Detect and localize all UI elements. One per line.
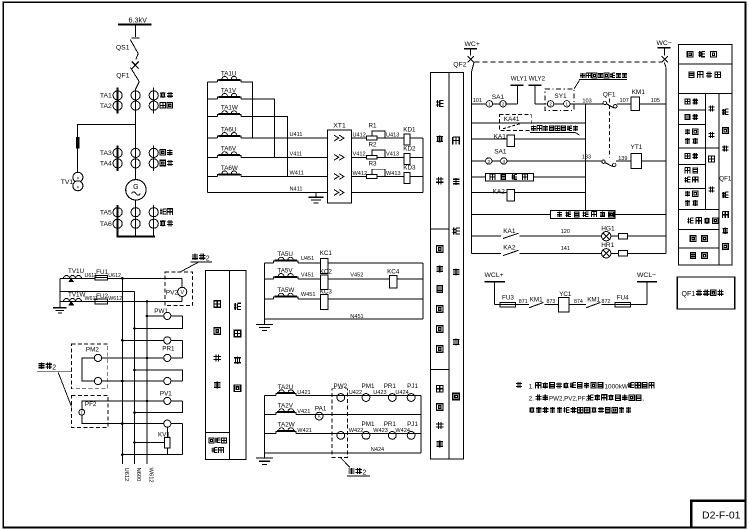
wire	[615, 214, 666, 216]
meter PW1 lower coil	[121, 337, 182, 358]
terminal block XT1	[328, 123, 352, 203]
svg-text:TA2W: TA2W	[278, 422, 295, 429]
wire	[108, 301, 183, 303]
svg-text:6.3kV: 6.3kV	[129, 15, 148, 24]
svg-text:141: 141	[561, 246, 570, 252]
branch wire to TV1	[78, 125, 136, 138]
svg-text:PR1: PR1	[162, 345, 175, 352]
svg-text:KA2: KA2	[493, 189, 506, 196]
svg-text:1: 1	[566, 102, 569, 107]
svg-text:FU4: FU4	[617, 294, 629, 301]
svg-text:PW2,PV2,PF2: PW2,PV2,PF2	[549, 396, 589, 403]
wire row9	[472, 252, 501, 254]
label 小母线	[687, 51, 693, 57]
svg-text:PV2: PV2	[166, 290, 179, 297]
label 见注2	[347, 468, 370, 477]
svg-text:872: 872	[602, 299, 611, 305]
svg-text:TA5: TA5	[100, 210, 112, 217]
label 合闸	[708, 105, 714, 111]
CT secondary TA6W	[218, 165, 242, 177]
QF1 aux linkage dashed	[608, 99, 610, 158]
wire	[352, 156, 367, 158]
sync bus WLY1	[511, 75, 528, 103]
bottom tie bar	[117, 236, 156, 238]
wire main feeder	[136, 82, 140, 180]
svg-text:PR1: PR1	[384, 383, 397, 390]
svg-text:V452: V452	[350, 273, 363, 279]
label 手动	[685, 153, 690, 158]
fuse FU3	[500, 294, 515, 307]
wire	[495, 304, 501, 306]
sync bus WLY2	[529, 75, 546, 103]
wire	[377, 156, 404, 158]
wire	[410, 137, 423, 139]
relay KC3	[320, 288, 333, 309]
svg-text:PM1: PM1	[362, 421, 375, 428]
wire U421 row	[296, 394, 421, 396]
wire 874	[569, 304, 586, 306]
wire	[136, 54, 138, 60]
svg-text:TA3: TA3	[100, 150, 112, 157]
wire W411	[241, 176, 327, 178]
synchronizer contact SY1	[545, 89, 574, 111]
meter PR1 lower coil	[102, 369, 183, 385]
right rail	[422, 263, 424, 319]
svg-text:D2-F-01: D2-F-01	[702, 509, 741, 521]
svg-text:WLY1: WLY1	[511, 75, 528, 82]
QF2 linkage dashed	[475, 61, 662, 63]
wire	[265, 394, 277, 396]
label 见同期控制图	[579, 73, 627, 80]
wire 873	[545, 304, 559, 306]
CT secondary TA6V	[218, 146, 242, 158]
label 操作回路	[722, 192, 728, 198]
wire	[207, 81, 217, 83]
svg-text:W612: W612	[108, 296, 122, 302]
label box 电压回路	[205, 271, 246, 460]
svg-text:QF1: QF1	[603, 92, 616, 99]
wire	[352, 176, 367, 178]
wire 101	[472, 103, 487, 105]
wire	[515, 192, 586, 194]
svg-text:2.: 2.	[529, 396, 535, 403]
wire row W	[60, 301, 95, 303]
function table	[678, 44, 732, 265]
svg-text:2: 2	[502, 102, 505, 107]
svg-text:N600: N600	[135, 468, 141, 482]
svg-text:U422: U422	[349, 390, 362, 396]
wire V411	[241, 156, 327, 158]
svg-text:KC2: KC2	[320, 269, 333, 276]
note line 3	[529, 407, 631, 413]
wire KV1-N	[135, 442, 165, 444]
svg-text:PR1: PR1	[384, 421, 397, 428]
wire bottom return	[122, 454, 182, 456]
wire N424 row	[265, 452, 421, 454]
svg-text:120: 120	[561, 229, 570, 235]
wire	[264, 298, 273, 300]
svg-text:133: 133	[582, 154, 591, 160]
svg-text:PJ1: PJ1	[407, 421, 418, 428]
svg-text:TA1W: TA1W	[221, 105, 238, 112]
relay coil KA2	[493, 189, 515, 202]
meter PF2 dashed panel	[71, 395, 108, 427]
CT TA3 circles	[100, 148, 158, 157]
wire	[397, 278, 423, 280]
left control rail	[471, 72, 473, 254]
svg-text:V413: V413	[386, 152, 399, 158]
node bus	[585, 104, 587, 211]
wire row4	[472, 160, 486, 162]
relay KD2	[403, 146, 416, 165]
relay KC4	[387, 269, 400, 288]
svg-text:TA2V: TA2V	[278, 403, 294, 410]
ground	[256, 319, 273, 331]
wire row6	[472, 192, 507, 194]
svg-text:PJ1: PJ1	[407, 383, 418, 390]
wire series link W	[241, 116, 287, 176]
box 水机保护	[486, 173, 534, 181]
meter PR1	[102, 345, 183, 361]
wire	[535, 103, 547, 105]
svg-text:TV1: TV1	[61, 179, 74, 186]
svg-text:U421: U421	[297, 390, 310, 396]
label 过流及过负荷	[437, 246, 443, 252]
switch SA1 contact 3-4	[486, 149, 507, 165]
relay KC1	[320, 250, 333, 274]
ammeter PA1	[315, 406, 327, 420]
meter PJ1 (W)	[407, 432, 415, 440]
svg-text:QF1: QF1	[719, 175, 732, 182]
wire 105	[639, 103, 666, 105]
svg-text:W612: W612	[148, 468, 154, 483]
winding TV1W	[64, 292, 86, 305]
green lamp HG1	[601, 225, 615, 241]
wire W421 row	[296, 432, 421, 434]
CT TA2 circles	[100, 101, 158, 110]
svg-text:V451: V451	[301, 272, 314, 278]
TV common rail	[59, 278, 61, 303]
breaker QF2 pole right	[662, 56, 668, 67]
svg-text:KA1: KA1	[503, 228, 516, 235]
right CT column segments	[153, 88, 155, 114]
wire	[410, 156, 423, 158]
svg-text:QF2: QF2	[453, 62, 466, 69]
svg-text:KC1: KC1	[320, 250, 333, 257]
contactor coil KM1	[631, 89, 646, 111]
svg-text:TA4: TA4	[100, 161, 112, 168]
wire N takeoff	[60, 290, 135, 292]
label 红灯	[691, 253, 708, 259]
wire	[265, 432, 277, 434]
wire series link V	[241, 99, 274, 157]
svg-text:W412: W412	[353, 171, 368, 177]
CT secondary TA2W	[276, 422, 296, 434]
svg-text:TA2U: TA2U	[278, 384, 294, 391]
svg-text:3: 3	[488, 159, 491, 164]
relay contact KA2	[503, 245, 519, 256]
box QF1合闸线圈	[677, 277, 735, 309]
svg-text:TA5W: TA5W	[277, 287, 294, 294]
svg-text:TA1U: TA1U	[221, 70, 237, 77]
meter PW2 dashed panel	[332, 383, 348, 458]
svg-text:2: 2	[549, 102, 552, 107]
bus WC-	[657, 40, 672, 56]
wire 872	[602, 304, 616, 306]
svg-text:U411: U411	[290, 132, 303, 138]
svg-text:WCL−: WCL−	[637, 272, 656, 279]
label 电压回路	[234, 303, 241, 310]
meter PM1 (U)	[362, 394, 370, 402]
voltage bus N600	[134, 291, 136, 464]
svg-text:SA1: SA1	[492, 94, 505, 101]
label 跳闸	[709, 156, 715, 162]
circuit breaker QF1	[116, 62, 139, 82]
label 见注2 (PM2/PF2)	[37, 363, 71, 407]
svg-text:HG1: HG1	[601, 225, 615, 232]
resistor R2	[367, 142, 385, 160]
wire 103	[570, 103, 605, 105]
wire	[641, 160, 666, 162]
label 空气开关	[689, 72, 694, 78]
meter PM1 (W)	[362, 432, 370, 440]
svg-text:TA5V: TA5V	[277, 268, 293, 275]
label 见注2 (PV2)	[180, 254, 212, 272]
relay contact KA1	[503, 228, 519, 239]
svg-text:KA1: KA1	[494, 134, 507, 141]
svg-text:V411: V411	[290, 151, 303, 157]
svg-text:1000kW: 1000kW	[605, 383, 629, 390]
svg-text:107: 107	[620, 98, 629, 104]
CT secondary TA5V	[274, 268, 299, 280]
label 见水轮机控制图	[530, 126, 579, 135]
wire series link U	[241, 82, 252, 138]
left rail	[264, 395, 266, 452]
voltmeter PV2	[178, 278, 187, 301]
svg-text:KA2: KA2	[503, 245, 516, 252]
svg-text:W413: W413	[386, 171, 401, 177]
label 保护回路	[687, 218, 693, 224]
breaker aux contact QF1 (close)	[603, 92, 617, 109]
CT secondary TA5U	[274, 251, 299, 263]
relay KD3	[403, 165, 416, 184]
meter PR1 (U)	[388, 394, 396, 402]
svg-text:U412: U412	[353, 133, 366, 139]
wire	[328, 298, 423, 300]
svg-text:103: 103	[582, 99, 591, 105]
fuse TV1 primary	[76, 137, 79, 148]
svg-text:TV1U: TV1U	[68, 268, 85, 275]
svg-text:KM1: KM1	[587, 296, 600, 303]
resistor	[618, 251, 627, 256]
wire	[77, 148, 79, 172]
wire row8	[472, 235, 501, 237]
contact KM1 (b)	[586, 296, 601, 307]
wire 871	[516, 304, 529, 306]
voltmeter PV2 dashed box	[165, 272, 193, 306]
winding TV1U	[64, 268, 85, 282]
svg-text:U612: U612	[108, 273, 121, 279]
svg-text:WCL+: WCL+	[485, 272, 504, 279]
label 纵差动	[436, 100, 443, 107]
wire	[628, 235, 666, 237]
svg-text:PA1: PA1	[315, 406, 327, 413]
svg-text:TA1: TA1	[100, 93, 112, 100]
svg-text:1: 1	[488, 102, 491, 107]
svg-text:W422: W422	[349, 428, 364, 434]
generator G	[126, 180, 146, 200]
svg-text:QS1: QS1	[116, 45, 130, 52]
label 过流	[160, 150, 165, 155]
svg-text:TA1V: TA1V	[221, 87, 237, 94]
wire	[377, 176, 404, 178]
svg-text:XT1: XT1	[333, 123, 346, 130]
note leader 见注2	[340, 458, 350, 468]
svg-text:FU2: FU2	[96, 293, 108, 300]
svg-text:KC4: KC4	[387, 269, 400, 276]
closing coil YC1	[559, 291, 572, 312]
svg-text:KD3: KD3	[403, 165, 416, 172]
svg-text:W421: W421	[297, 428, 312, 434]
wire	[628, 252, 666, 254]
svg-text:R3: R3	[369, 161, 378, 168]
wire N451	[264, 318, 423, 320]
bus WC+	[464, 41, 480, 56]
svg-text:QF1: QF1	[682, 291, 696, 298]
bus 6.3kV	[118, 23, 152, 25]
wire 141	[520, 252, 602, 254]
svg-text:4: 4	[503, 159, 506, 164]
wire	[135, 200, 137, 237]
voltage bus W612	[146, 302, 148, 465]
label 水机保护	[685, 168, 698, 183]
right control rail	[665, 67, 667, 253]
svg-text:A: A	[318, 414, 321, 419]
svg-text:KM1: KM1	[530, 296, 543, 303]
svg-text:HR1: HR1	[601, 242, 614, 249]
resistor R1	[367, 122, 385, 140]
label 交流电流回路	[453, 137, 460, 144]
bus WCL+	[485, 272, 505, 304]
breaker QF2 pole left	[453, 56, 474, 71]
svg-text:N411: N411	[290, 187, 303, 193]
fuse FU1	[95, 269, 108, 280]
wire	[328, 262, 423, 264]
svg-text:W451: W451	[301, 292, 316, 298]
relay coil KA1	[494, 134, 515, 147]
wire	[631, 304, 647, 306]
annotation leader	[574, 80, 580, 89]
svg-text:U451: U451	[301, 256, 314, 262]
wire 107	[617, 103, 631, 105]
svg-text:TA5U: TA5U	[277, 251, 293, 258]
wire	[207, 156, 217, 158]
svg-text:,: ,	[642, 396, 644, 403]
CT secondary TA1V	[218, 87, 242, 99]
svg-text:WLY2: WLY2	[529, 75, 546, 82]
svg-text:KV1: KV1	[158, 431, 170, 438]
label 测量表计	[214, 301, 220, 307]
wire	[377, 137, 404, 139]
ladder left rail wire	[206, 82, 208, 193]
svg-text:KC3: KC3	[320, 288, 333, 295]
voltage bus U612	[121, 278, 123, 464]
svg-text:PM2: PM2	[86, 346, 99, 353]
note line 2	[529, 395, 645, 403]
wire V452	[328, 278, 390, 280]
breaker aux contact QF1 (trip)	[602, 160, 616, 167]
wire	[352, 192, 424, 194]
wire 139	[616, 160, 631, 162]
CT TA4 circles	[100, 159, 158, 168]
svg-text:PW1: PW1	[154, 308, 168, 315]
disconnector QS1	[116, 38, 140, 54]
title block D2-F-01	[691, 501, 745, 528]
CT secondary TA2V	[276, 403, 296, 415]
label 自动	[685, 114, 690, 119]
svg-text:FU3: FU3	[502, 294, 514, 301]
svg-text:PW2: PW2	[334, 383, 348, 390]
label 测量	[160, 103, 165, 108]
wire	[207, 98, 217, 100]
wire	[506, 103, 517, 105]
svg-text:V: V	[180, 290, 184, 296]
wire U451	[298, 262, 320, 264]
wire	[207, 137, 217, 139]
resistor R3	[367, 161, 385, 179]
meter circle PW2-W	[337, 432, 345, 440]
wire	[534, 176, 586, 178]
wire row U	[60, 277, 95, 279]
wire	[207, 115, 217, 117]
CT secondary TA2U	[276, 384, 296, 396]
relay contact KA41	[500, 115, 532, 131]
relay KD1	[403, 126, 416, 145]
wire 133	[507, 160, 602, 162]
trip coil YT1	[631, 144, 643, 169]
svg-text:139: 139	[618, 156, 627, 162]
svg-text:TV1W: TV1W	[68, 292, 86, 299]
svg-text:R2: R2	[369, 142, 378, 149]
svg-text:V421: V421	[297, 409, 310, 415]
contact KM1 (a)	[529, 296, 544, 307]
CT TA1 circles	[100, 91, 158, 100]
svg-text:874: 874	[574, 299, 583, 305]
label 差动	[160, 220, 165, 226]
svg-text:V412: V412	[353, 152, 366, 158]
svg-text:TA6W: TA6W	[221, 165, 238, 172]
CT secondary TA1W	[218, 105, 242, 117]
svg-text:WC+: WC+	[465, 41, 480, 48]
svg-text:101: 101	[473, 98, 482, 104]
relay KV1	[158, 427, 170, 455]
svg-text:U424: U424	[395, 390, 408, 396]
red lamp HR1	[601, 242, 614, 258]
label box 交流电流回路	[431, 73, 464, 459]
label 备用	[160, 160, 165, 165]
meter PV1 lower coil	[108, 420, 183, 455]
svg-text:KD1: KD1	[403, 126, 416, 133]
label 手动	[685, 99, 690, 104]
wire row2	[472, 122, 586, 124]
wire	[207, 176, 217, 178]
svg-text:WC−: WC−	[657, 40, 672, 47]
svg-text:W423: W423	[373, 428, 388, 434]
wire row5	[472, 176, 486, 178]
wire row7	[472, 214, 551, 216]
svg-text:KD2: KD2	[403, 146, 416, 153]
wire	[264, 278, 273, 280]
